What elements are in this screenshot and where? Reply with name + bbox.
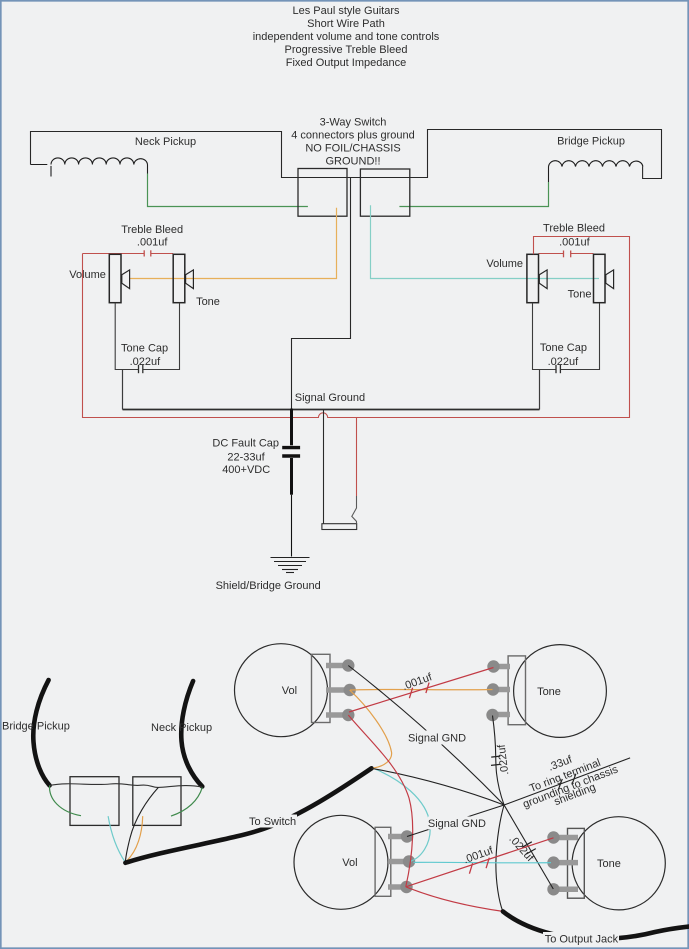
wire green bridge lead bbox=[50, 785, 81, 815]
svg-text:400+VDC: 400+VDC bbox=[222, 464, 270, 476]
wire black hot down to cable bundle bbox=[125, 787, 158, 862]
wire black .022uf upper tone to star to output bbox=[493, 716, 505, 912]
wire bridge pickup green lead to switch bbox=[399, 182, 548, 207]
capacitor tone cap right ticks bbox=[556, 365, 560, 373]
3-way switch label block bbox=[291, 117, 415, 168]
to switch label bbox=[247, 815, 297, 828]
lower volume pot lug stems bbox=[388, 837, 409, 888]
signal GND label 2 bbox=[428, 817, 486, 831]
svg-text:Vol: Vol bbox=[282, 685, 297, 697]
svg-text:Fixed Output Impedance: Fixed Output Impedance bbox=[286, 57, 406, 69]
svg-text:Bridge Pickup: Bridge Pickup bbox=[557, 136, 625, 148]
capacitor .33uf ticks bbox=[559, 774, 576, 790]
svg-text:Shield/Bridge Ground: Shield/Bridge Ground bbox=[216, 580, 321, 592]
wire orange lead to bundle bbox=[126, 816, 143, 861]
lower volume pot circle bbox=[294, 815, 388, 909]
wire neck pickup green lead to switch bbox=[148, 174, 308, 207]
tone pot left body bbox=[173, 254, 185, 302]
signal GND label 1 bbox=[407, 731, 467, 745]
capacitor DC fault cap bbox=[282, 409, 300, 557]
upper tone pot circle bbox=[514, 645, 607, 738]
output jack base plate bbox=[322, 524, 357, 530]
svg-text:Tone: Tone bbox=[196, 296, 220, 308]
svg-text:Volume: Volume bbox=[486, 258, 523, 270]
svg-text:To Output Jack: To Output Jack bbox=[545, 934, 619, 946]
svg-text:Signal Ground: Signal Ground bbox=[295, 392, 365, 404]
wire treble bleed right red bbox=[539, 253, 594, 255]
wire black upper vol top lug to star ground bbox=[348, 666, 504, 806]
signal ground bus bbox=[123, 409, 540, 411]
wire black star to lower tone bottom lug bbox=[504, 805, 553, 889]
upper tone pot plate bbox=[508, 656, 525, 725]
wire cyan lower vol wiper to lower tone wiper bbox=[413, 861, 551, 864]
jack tip spring contact bbox=[352, 496, 357, 524]
wire red treble bleed upper diagonal bbox=[349, 668, 494, 713]
svg-text:Les Paul style Guitars: Les Paul style Guitars bbox=[293, 5, 400, 17]
wire teal switch to right volume wiper bbox=[371, 205, 600, 278]
svg-text:.022uf: .022uf bbox=[130, 356, 162, 368]
svg-text:GROUND!!: GROUND!! bbox=[326, 156, 381, 168]
capacitor treble bleed left ticks bbox=[144, 250, 151, 256]
wire green neck lead bbox=[171, 787, 202, 816]
svg-text:.001uf: .001uf bbox=[559, 237, 591, 249]
svg-text:Neck Pickup: Neck Pickup bbox=[135, 136, 196, 148]
svg-text:Tone: Tone bbox=[537, 686, 561, 698]
wire orange switch to left volume wiper bbox=[130, 208, 337, 279]
tone pot right body bbox=[594, 254, 606, 302]
capacitor .001uf lower ticks bbox=[469, 858, 489, 874]
wire shield wavy across boxes bbox=[50, 784, 203, 788]
bridge pickup coil L-bridge bbox=[549, 161, 643, 182]
svg-text:Short Wire Path: Short Wire Path bbox=[307, 18, 385, 30]
wire red lower vol bottom lug to output bbox=[406, 887, 503, 912]
connector box right bbox=[133, 777, 181, 826]
wire right ground drop bbox=[539, 370, 541, 410]
switch box left bbox=[298, 169, 347, 217]
to switch cable thick bbox=[125, 768, 371, 863]
svg-text:To Switch: To Switch bbox=[249, 816, 296, 828]
svg-text:Signal GND: Signal GND bbox=[408, 732, 466, 744]
ground symbol shield/bridge bbox=[271, 558, 310, 573]
volume pot left body bbox=[109, 254, 121, 302]
wire left ground drop bbox=[122, 370, 124, 410]
svg-text:3-Way Switch: 3-Way Switch bbox=[320, 117, 387, 129]
svg-text:DC Fault Cap: DC Fault Cap bbox=[212, 438, 279, 450]
wire tone cap right bbox=[533, 303, 600, 370]
capacitor tone cap left ticks bbox=[139, 365, 143, 373]
svg-text:.001uf: .001uf bbox=[137, 236, 169, 248]
title text block bbox=[253, 5, 440, 69]
svg-text:Treble Bleed: Treble Bleed bbox=[543, 223, 605, 235]
connector box left bbox=[70, 777, 119, 826]
svg-text:22-33uf: 22-33uf bbox=[227, 452, 265, 464]
upper volume pot lug stems bbox=[326, 666, 350, 716]
wire red upper vol bottom lug down to lower vol bottom lug bbox=[348, 715, 412, 887]
capacitor .022uf upper ticks bbox=[491, 756, 500, 765]
wire red to jack tip bbox=[356, 418, 358, 497]
wire switch output down to signal ground bbox=[292, 178, 351, 410]
lower tone pot plate bbox=[568, 828, 585, 898]
svg-text:Tone Cap: Tone Cap bbox=[121, 342, 168, 354]
neck pickup coil L-neck bbox=[31, 158, 148, 177]
switch box right bbox=[360, 169, 409, 216]
upper volume pot circle bbox=[235, 644, 328, 737]
wire neck/bridge pickup hot run bbox=[31, 130, 662, 179]
wire teal lead to bundle bbox=[108, 816, 125, 862]
wire orange upper vol wiper to tone wiper bbox=[350, 688, 493, 691]
wire black star to lower vol top lug bbox=[407, 805, 504, 837]
svg-text:.022uf: .022uf bbox=[548, 356, 580, 368]
volume pot left wiper bbox=[122, 270, 130, 289]
wire jack sleeve from bus bbox=[323, 410, 325, 524]
wire orange upper vol wiper down to bundle bbox=[350, 690, 392, 768]
wire cyan bundle to lower vol wiper bbox=[375, 769, 430, 861]
svg-text:Bridge Pickup: Bridge Pickup bbox=[2, 721, 70, 733]
tone pot left wiper bbox=[186, 270, 194, 289]
svg-text:Tone: Tone bbox=[597, 858, 621, 870]
to output jack cable thick bbox=[503, 911, 689, 939]
capacitor .022uf lower ticks bbox=[522, 842, 536, 854]
svg-text:Signal GND: Signal GND bbox=[428, 818, 486, 830]
bridge pickup cable arc bbox=[33, 680, 49, 785]
svg-text:NO FOIL/CHASSIS: NO FOIL/CHASSIS bbox=[305, 143, 400, 155]
capacitor treble bleed right ticks bbox=[564, 251, 571, 258]
lower volume pot lugs bbox=[400, 830, 415, 893]
svg-text:Tone: Tone bbox=[568, 288, 592, 300]
svg-text:Tone Cap: Tone Cap bbox=[540, 342, 587, 354]
svg-text:Vol: Vol bbox=[342, 857, 357, 869]
neck pickup cable arc bbox=[181, 681, 202, 787]
capacitor .001uf upper ticks bbox=[409, 683, 429, 699]
wire treble bleed left red bbox=[83, 253, 174, 255]
wire black star to ring terminal bbox=[504, 758, 630, 805]
wire red lower .001uf diagonal bbox=[406, 838, 554, 887]
lower tone pot lug stems bbox=[554, 838, 578, 890]
svg-text:independent volume and tone co: independent volume and tone controls bbox=[253, 31, 440, 43]
svg-text:4 connectors plus ground: 4 connectors plus ground bbox=[291, 130, 415, 142]
wire tone cap left bbox=[115, 303, 179, 370]
upper volume pot lugs bbox=[342, 659, 356, 721]
lower tone pot lugs bbox=[547, 831, 559, 895]
wire black bundle to star ground bbox=[372, 768, 505, 805]
svg-text:Treble Bleed: Treble Bleed bbox=[121, 224, 183, 236]
upper tone pot lug stems bbox=[493, 667, 510, 715]
upper volume pot plate bbox=[312, 654, 331, 722]
lower tone pot circle bbox=[572, 817, 665, 910]
svg-text:Volume: Volume bbox=[69, 269, 106, 281]
wire red hot loop around bbox=[83, 237, 630, 418]
lower volume pot plate bbox=[375, 827, 391, 896]
svg-text:Neck Pickup: Neck Pickup bbox=[151, 722, 212, 734]
tone pot right wiper bbox=[606, 270, 614, 289]
svg-text:Progressive Treble Bleed: Progressive Treble Bleed bbox=[285, 44, 408, 56]
upper tone pot lugs bbox=[486, 660, 499, 721]
volume pot right body bbox=[527, 254, 539, 302]
to output jack label bbox=[543, 932, 619, 946]
volume pot right wiper bbox=[539, 270, 547, 289]
